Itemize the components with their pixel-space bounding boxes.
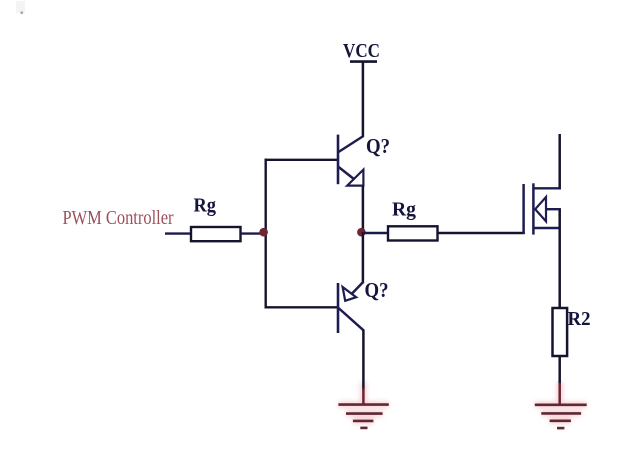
wire source down to R2 xyxy=(558,209,561,308)
wire Q1 emitter to node B xyxy=(362,186,365,233)
wire VCC to Q1 collector xyxy=(362,62,365,138)
label Rg (input resistor) xyxy=(194,195,217,217)
mosfet Q3 xyxy=(524,183,561,234)
wire bus to Q1 base xyxy=(265,159,339,161)
label Q? (Q1) xyxy=(366,134,390,158)
wire base bus vertical xyxy=(265,159,267,309)
node A junction dot xyxy=(259,228,268,237)
wire Rg2 to MOSFET gate xyxy=(438,232,525,234)
svg-text:PWM Controller: PWM Controller xyxy=(63,208,174,229)
ground glow halo (left) xyxy=(338,382,388,421)
ground (right) xyxy=(535,405,587,428)
transistor Q1 NPN xyxy=(338,135,363,186)
power VCC bar xyxy=(350,60,377,63)
wire bus to Q2 base xyxy=(265,306,339,308)
wire drain up xyxy=(558,134,561,190)
label Rg (gate resistor) xyxy=(392,199,416,221)
resistor R2 xyxy=(553,308,568,356)
svg-text:Rg: Rg xyxy=(194,195,217,217)
svg-text:R2: R2 xyxy=(568,308,591,330)
wire Q2 collector to ground xyxy=(362,330,365,405)
svg-text:Q?: Q? xyxy=(365,278,389,302)
svg-text:Q?: Q? xyxy=(366,134,390,158)
wire node B to Rg2 xyxy=(363,232,388,234)
label Q? (Q2) xyxy=(365,278,389,302)
wire R2 to ground xyxy=(558,356,561,405)
text PWM Controller xyxy=(63,208,174,229)
wire input to Rg1 xyxy=(165,232,191,234)
resistor Rg2 xyxy=(388,226,438,240)
svg-text:VCC: VCC xyxy=(343,40,380,62)
node B junction dot xyxy=(357,228,366,237)
wire node B to Q2 emitter xyxy=(362,232,365,283)
ground (left) xyxy=(338,405,388,428)
svg-text:Rg: Rg xyxy=(392,199,416,221)
resistor Rg1 xyxy=(191,227,241,241)
artifact mark top-left xyxy=(16,1,25,14)
label R2 xyxy=(568,308,591,330)
transistor Q2 PNP xyxy=(338,282,364,333)
wire Rg1 to node A xyxy=(241,232,267,234)
label VCC xyxy=(343,40,380,62)
ground glow halo (right) xyxy=(535,382,587,421)
